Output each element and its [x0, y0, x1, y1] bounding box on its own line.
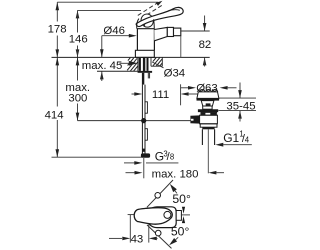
spout end cap	[174, 28, 181, 36]
wire ref line bottom 414	[52, 156, 143, 158]
top view: lever paddle	[134, 208, 172, 225]
faucet body column	[137, 29, 155, 51]
body main	[200, 115, 218, 124]
ball joint	[190, 115, 199, 123]
top view: swing line upper	[147, 180, 173, 207]
plug knurl bumps	[199, 90, 205, 92]
plug neck	[201, 101, 214, 106]
faucet lever handle side view	[136, 7, 183, 26]
lever pivot ball	[140, 13, 155, 29]
body lower band	[200, 124, 217, 127]
svg-text:50°: 50°	[172, 192, 191, 206]
faucet handle raised dashed	[138, 1, 163, 18]
top view: spout circle overlay	[164, 211, 171, 218]
dimension 35-45	[219, 97, 256, 99]
neck stem	[203, 106, 212, 109]
body upper band	[201, 112, 217, 115]
top view: swing line lower	[147, 225, 172, 249]
top view: aerator block	[176, 211, 181, 221]
deck bottom right	[151, 65, 162, 67]
wire aerator drop line	[180, 36, 182, 58]
locknut dark band	[202, 127, 214, 129]
rod clamp upper	[145, 102, 147, 113]
top view: knob circle lower	[155, 230, 161, 236]
dimension Ø63	[181, 87, 188, 89]
svg-text:G1: G1	[223, 131, 239, 145]
svg-text:300: 300	[68, 92, 87, 104]
shank hose stub	[147, 73, 149, 79]
faucet spout	[154, 27, 167, 40]
svg-text:146: 146	[69, 34, 88, 46]
deck top surface	[52, 56, 210, 58]
dimension 111	[132, 93, 135, 95]
wire ext line rod end	[143, 158, 145, 178]
dimension max.300	[77, 57, 79, 80]
wire ext line drain left	[180, 84, 182, 105]
svg-text:35-45: 35-45	[226, 101, 255, 113]
top view: swing arrow upper	[168, 183, 177, 193]
dimension max.180	[126, 172, 135, 174]
rod end knob	[141, 153, 150, 157]
deck bottom left	[97, 70, 138, 72]
svg-text:178: 178	[48, 23, 67, 35]
faucet base	[135, 50, 154, 57]
svg-text:82: 82	[199, 39, 212, 51]
spout aerator block	[167, 27, 173, 36]
svg-text:8: 8	[170, 152, 174, 161]
top view: swing arrow lower	[168, 238, 177, 247]
wire pipe centerline	[207, 129, 209, 173]
svg-text:max. 180: max. 180	[152, 169, 199, 181]
dimension 82	[181, 30, 210, 32]
svg-text:Ø63: Ø63	[196, 83, 218, 95]
svg-text:50°: 50°	[171, 224, 190, 238]
wire ref line 178 top	[57, 1, 158, 3]
deck hole left wall	[137, 57, 139, 71]
deck hole right wall	[150, 57, 152, 66]
svg-text:111: 111	[152, 89, 169, 101]
top view: knob circle upper	[155, 193, 161, 199]
plug disc dark rim	[197, 98, 220, 100]
rod dark segment	[142, 149, 145, 152]
svg-text:43: 43	[131, 233, 144, 245]
shank stud	[142, 73, 144, 85]
drain pop-up waste assembly	[190, 90, 219, 174]
arrow max45 below deck	[100, 71, 104, 79]
rod clamp lower	[145, 129, 147, 141]
lever tip inner line	[169, 9, 180, 12]
faucet dome	[137, 19, 155, 29]
deck hatch left	[127, 58, 138, 71]
pop-up rod vertical	[141, 85, 143, 154]
top view: dimension 43	[128, 214, 135, 216]
svg-text:4: 4	[245, 136, 250, 145]
deck hatch right	[153, 58, 162, 67]
deck right cut edge	[161, 57, 163, 66]
dimension 178	[56, 2, 58, 57]
top view: spout circle	[164, 211, 171, 218]
svg-text:414: 414	[45, 109, 64, 121]
arrow handle raised	[156, 0, 164, 6]
tail pipe	[201, 129, 203, 145]
top view: outlet tick arrows	[182, 207, 185, 214]
dimension 146	[76, 10, 80, 18]
shank washer	[138, 71, 153, 73]
seal dark band	[198, 109, 218, 112]
svg-text:Ø34: Ø34	[164, 67, 186, 79]
rod junction dot	[141, 118, 146, 123]
dimension 414	[56, 57, 58, 106]
top view: body capsule	[147, 207, 177, 228]
svg-text:max. 45: max. 45	[82, 60, 123, 72]
wire pop-up rod horizontal linkage	[78, 120, 192, 122]
wire ref line 146	[78, 9, 142, 11]
faucet shank threaded bars	[139, 58, 149, 72]
plug disc	[197, 92, 219, 99]
